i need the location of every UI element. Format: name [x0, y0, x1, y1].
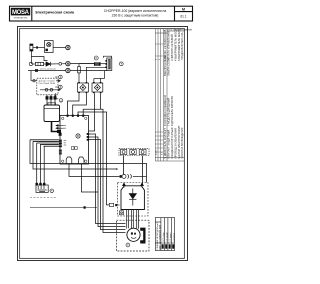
svg-text:9 ДВИГАТЕЛЬ КОЛЛЕКТ: 9 ДВИГАТЕЛЬ КОЛЛЕКТ — [163, 128, 167, 159]
legend strip header marks — [168, 29, 193, 32]
svg-text:M: M — [182, 8, 185, 12]
drawing frame inner — [20, 29, 185, 259]
svg-text:8 ДРОССЕЛЬ ФИЛЬТРА: 8 ДРОССЕЛЬ ФИЛЬТРА — [170, 96, 174, 126]
pcb out wire 2 — [82, 164, 99, 192]
motor dashed box — [117, 220, 150, 251]
svg-text:GENERATORS: GENERATORS — [14, 17, 28, 20]
plug X1 pins — [46, 95, 56, 105]
diode V4 — [44, 62, 51, 66]
svg-text:Электрическая схема: Электрическая схема — [35, 10, 75, 14]
filter row2 — [40, 88, 60, 91]
terminal strip X2 — [119, 149, 149, 156]
svg-text:230 В с защитным контактом): 230 В с защитным контактом) — [112, 13, 159, 17]
table rotated labels — [157, 222, 175, 250]
svg-text:6 КОЛОДКА КЛЕММНАЯ: 6 КОЛОДКА КЛЕММНАЯ — [163, 95, 167, 126]
wire pcb pin c right drop — [78, 112, 109, 205]
wire fuse to lamp — [33, 47, 45, 49]
wire switch to bridge pin a — [79, 64, 95, 67]
pcb centre pot — [76, 134, 80, 138]
svg-text:ЛАМПА СЕТИ: ЛАМПА СЕТИ — [167, 58, 171, 76]
pcb pin labels — [64, 125, 67, 145]
table symbols row — [162, 244, 175, 248]
svg-text:ПРЕДОХРАНИТЕЛЬ 10А: ПРЕДОХРАНИТЕЛЬ 10А — [181, 32, 184, 60]
filter row1 — [31, 80, 60, 82]
wire bridge1 out b — [73, 93, 87, 114]
pcb mount holes — [62, 117, 88, 162]
svg-text:MOSA: MOSA — [12, 10, 30, 16]
pcb bottom device 2 — [78, 157, 84, 164]
plug cable — [52, 122, 59, 132]
callout earth — [50, 189, 54, 193]
fuse F1 — [30, 44, 33, 51]
wire bridge2 out a — [89, 93, 95, 131]
svg-text:КОНТАКТ ЗАЩИТНЫЙ: КОНТАКТ ЗАЩИТНЫЙ — [167, 130, 171, 159]
capacitor C1 — [109, 203, 119, 206]
filter dashed box — [37, 78, 58, 95]
switch S1 connector — [94, 56, 107, 66]
MOSA logo — [11, 8, 30, 20]
junction dot net L — [116, 168, 118, 170]
motor M1 — [127, 228, 140, 241]
dashed floor line — [30, 197, 57, 199]
wire terminal3 to switch row — [70, 70, 107, 72]
module dashed enclosure — [118, 183, 149, 217]
terminal drops — [124, 156, 143, 186]
bridge rectifier V3 — [92, 82, 103, 93]
bridge rectifier V2 — [77, 82, 88, 93]
lamp H1 box — [45, 41, 54, 53]
callout 5 — [55, 85, 62, 89]
terminal symbol 1 — [66, 45, 70, 49]
callout motor — [126, 243, 130, 247]
svg-text:CHOPPER-100 (вариант исполнени: CHOPPER-100 (вариант исполнения на — [104, 9, 167, 13]
terminal symbol 3 — [66, 68, 70, 72]
tick component row4 — [35, 69, 38, 72]
header box — [10, 6, 193, 21]
wire left drop to filter — [30, 71, 32, 81]
svg-text:ОБМОТКА ВОЗБУЖДЕНИЯ: ОБМОТКА ВОЗБУЖДЕНИЯ — [181, 127, 184, 158]
earth connector block — [36, 183, 48, 192]
pcb bottom device 1 — [66, 157, 72, 164]
motor brush bar — [140, 228, 145, 244]
ground line bottom — [30, 207, 97, 209]
node circle row3 — [29, 62, 32, 65]
svg-text:4,0 ж/зел: 4,0 ж/зел — [173, 232, 175, 241]
svg-text:4 ВЫПРЯМИТЕЛЬ МОСТ: 4 ВЫПРЯМИТЕЛЬ МОСТ — [173, 29, 177, 61]
wire terminal2 to switch — [70, 63, 94, 65]
pin box symbol — [120, 211, 124, 215]
pcb right edge pin blocks — [87, 133, 89, 141]
svg-text:ПРОВОД ЗАЗЕМЛЕНИЯ: ПРОВОД ЗАЗЕМЛЕНИЯ — [173, 128, 177, 159]
svg-text:КОНДЕНСАТОР 0,47мкФ: КОНДЕНСАТОР 0,47мкФ — [170, 127, 174, 158]
pcb board A1 — [60, 116, 89, 165]
plug X1 body — [44, 105, 60, 122]
module thick leads — [127, 210, 139, 229]
wire switch bottom drop — [104, 71, 106, 79]
wiring table bottom right — [155, 218, 174, 251]
wire diode to terminal 2 — [50, 63, 59, 65]
svg-text:фильтр сетевой: фильтр сетевой — [38, 80, 55, 83]
pcb small parts — [72, 147, 75, 150]
svg-text:ВЫКЛЮЧАТЕЛЬ: ВЫКЛЮЧАТЕЛЬ — [163, 55, 167, 76]
wire bridge1 out a — [68, 93, 80, 114]
ferrite choke — [120, 174, 147, 178]
module top pins — [123, 183, 144, 187]
switch S1 body — [104, 56, 112, 70]
wire bundle pcb to motor — [89, 134, 126, 230]
legend strip table — [155, 29, 184, 161]
pcb out wire 1 — [69, 164, 120, 176]
wire band drops — [30, 140, 147, 184]
fuse F2 — [78, 67, 81, 73]
svg-text:3 ФИЛЬТР СЕТЕВОЙ: 3 ФИЛЬТР СЕТЕВОЙ — [170, 34, 174, 61]
resistor R1 — [35, 62, 43, 65]
callout 4 — [55, 75, 62, 79]
wire switch to bridge pin b — [86, 67, 106, 82]
wire bridge2 out b — [100, 93, 102, 109]
node circle mid row3 — [59, 62, 62, 65]
svg-text:0,75 чёрн: 0,75 чёрн — [163, 232, 165, 241]
diode module V1 — [121, 186, 144, 210]
svg-text:ЦВЕТ ОБОЗНАЧЕНИЕ ЖИЛ: ЦВЕТ ОБОЗНАЧЕНИЕ ЖИЛ — [159, 224, 162, 250]
svg-text:61.1: 61.1 — [180, 15, 186, 19]
svg-text:2x0,47мкФ 250В: 2x0,47мкФ 250В — [38, 82, 55, 85]
drawing frame outer — [18, 27, 188, 261]
callout 2 — [56, 93, 63, 102]
legend strip cell ticks — [155, 44, 163, 152]
legend strip rotated text — [156, 29, 184, 159]
svg-text:2,5 корич: 2,5 корич — [170, 233, 172, 242]
wire fuse bottom jog to lamp pin — [31, 51, 47, 64]
wire lamp to terminal 1 — [53, 47, 65, 49]
svg-text:2 ПЛАТА УПРАВЛЕНИЯ: 2 ПЛАТА УПРАВЛЕНИЯ — [167, 31, 171, 61]
wire row4 left — [28, 70, 66, 72]
svg-text:7 МОДУЛЬ ДИОДНЫЙ: 7 МОДУЛЬ ДИОДНЫЙ — [167, 98, 171, 126]
module diode symbol — [129, 189, 136, 206]
pcb top pins — [67, 114, 85, 117]
wire cross bus y78 — [94, 79, 105, 83]
wire band pcb left — [30, 140, 59, 146]
wire pcb pin d right drop — [83, 109, 125, 232]
svg-text:жёлто-зелёный: жёлто-зелёный — [40, 68, 56, 71]
terminal symbol 2 — [66, 61, 70, 65]
switch indicator circle — [119, 62, 123, 66]
pcb left pin block — [59, 140, 62, 155]
svg-text:1,5 синий: 1,5 синий — [165, 232, 168, 242]
pcb left arrows — [56, 125, 64, 129]
